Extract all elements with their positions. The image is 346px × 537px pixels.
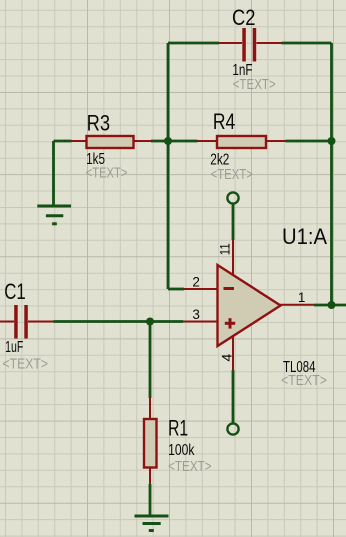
junction node R3/R4/feedback <box>164 137 172 145</box>
minus sign <box>224 287 235 290</box>
resistor R3 <box>72 136 152 148</box>
junction node R4 right <box>328 137 336 145</box>
junction node input/R1 <box>146 318 154 326</box>
svg-text:<TEXT>: <TEXT> <box>211 166 253 183</box>
op-amp U1 body <box>183 240 314 370</box>
svg-text:<TEXT>: <TEXT> <box>168 458 212 475</box>
ground left <box>37 206 71 224</box>
ground bottom <box>135 516 169 531</box>
wire: pin4 green to terminal <box>232 370 235 423</box>
wire: pin11 green from terminal <box>232 205 235 241</box>
plus sign <box>225 322 235 325</box>
pin 11 stub <box>232 240 234 278</box>
svg-text:3: 3 <box>192 307 200 322</box>
wire: R3 left green + R4 leads green <box>54 140 332 143</box>
svg-text:1: 1 <box>298 290 306 305</box>
power terminal top (pin 11) <box>227 192 238 203</box>
svg-text:1uF: 1uF <box>5 339 23 356</box>
pin 4 stub <box>232 333 234 370</box>
pin 1 stub output <box>279 304 314 306</box>
junction node output <box>328 301 336 309</box>
capacitor C2 <box>219 28 282 62</box>
wire: C2 top loop horizontal <box>168 42 332 45</box>
svg-text:<TEXT>: <TEXT> <box>86 165 128 182</box>
wire: input row green <box>54 320 184 323</box>
pin 3 stub <box>183 321 219 323</box>
power terminal bottom (pin 4) <box>227 423 238 434</box>
svg-text:R4: R4 <box>213 109 235 134</box>
resistor R1 <box>144 398 157 484</box>
wire: left vertical feedback node x=168 <box>167 43 170 289</box>
svg-text:100k: 100k <box>168 442 195 459</box>
svg-text:R3: R3 <box>87 110 111 135</box>
pin 2 stub <box>184 288 219 290</box>
svg-text:C1: C1 <box>4 279 26 304</box>
wire: right vertical x=331.5 <box>330 43 333 305</box>
wire: left ground drop x=53.5 <box>52 141 55 205</box>
svg-text:U1:A: U1:A <box>282 224 327 249</box>
wire: R1 branch vertical <box>149 322 152 399</box>
svg-text:R1: R1 <box>168 416 188 441</box>
svg-text:C2: C2 <box>232 5 256 30</box>
svg-text:<TEXT>: <TEXT> <box>233 76 276 93</box>
svg-text:<TEXT>: <TEXT> <box>3 355 49 372</box>
capacitor C1 <box>0 305 54 339</box>
wire: R1 bottom to ground <box>149 484 152 515</box>
svg-text:11: 11 <box>218 243 233 255</box>
wire: pin2 horizontal from node <box>168 288 184 291</box>
wire: output green <box>314 304 346 307</box>
svg-text:2: 2 <box>192 274 200 289</box>
svg-text:<TEXT>: <TEXT> <box>281 372 327 389</box>
svg-text:4: 4 <box>219 353 234 361</box>
resistor R4 <box>198 136 286 148</box>
